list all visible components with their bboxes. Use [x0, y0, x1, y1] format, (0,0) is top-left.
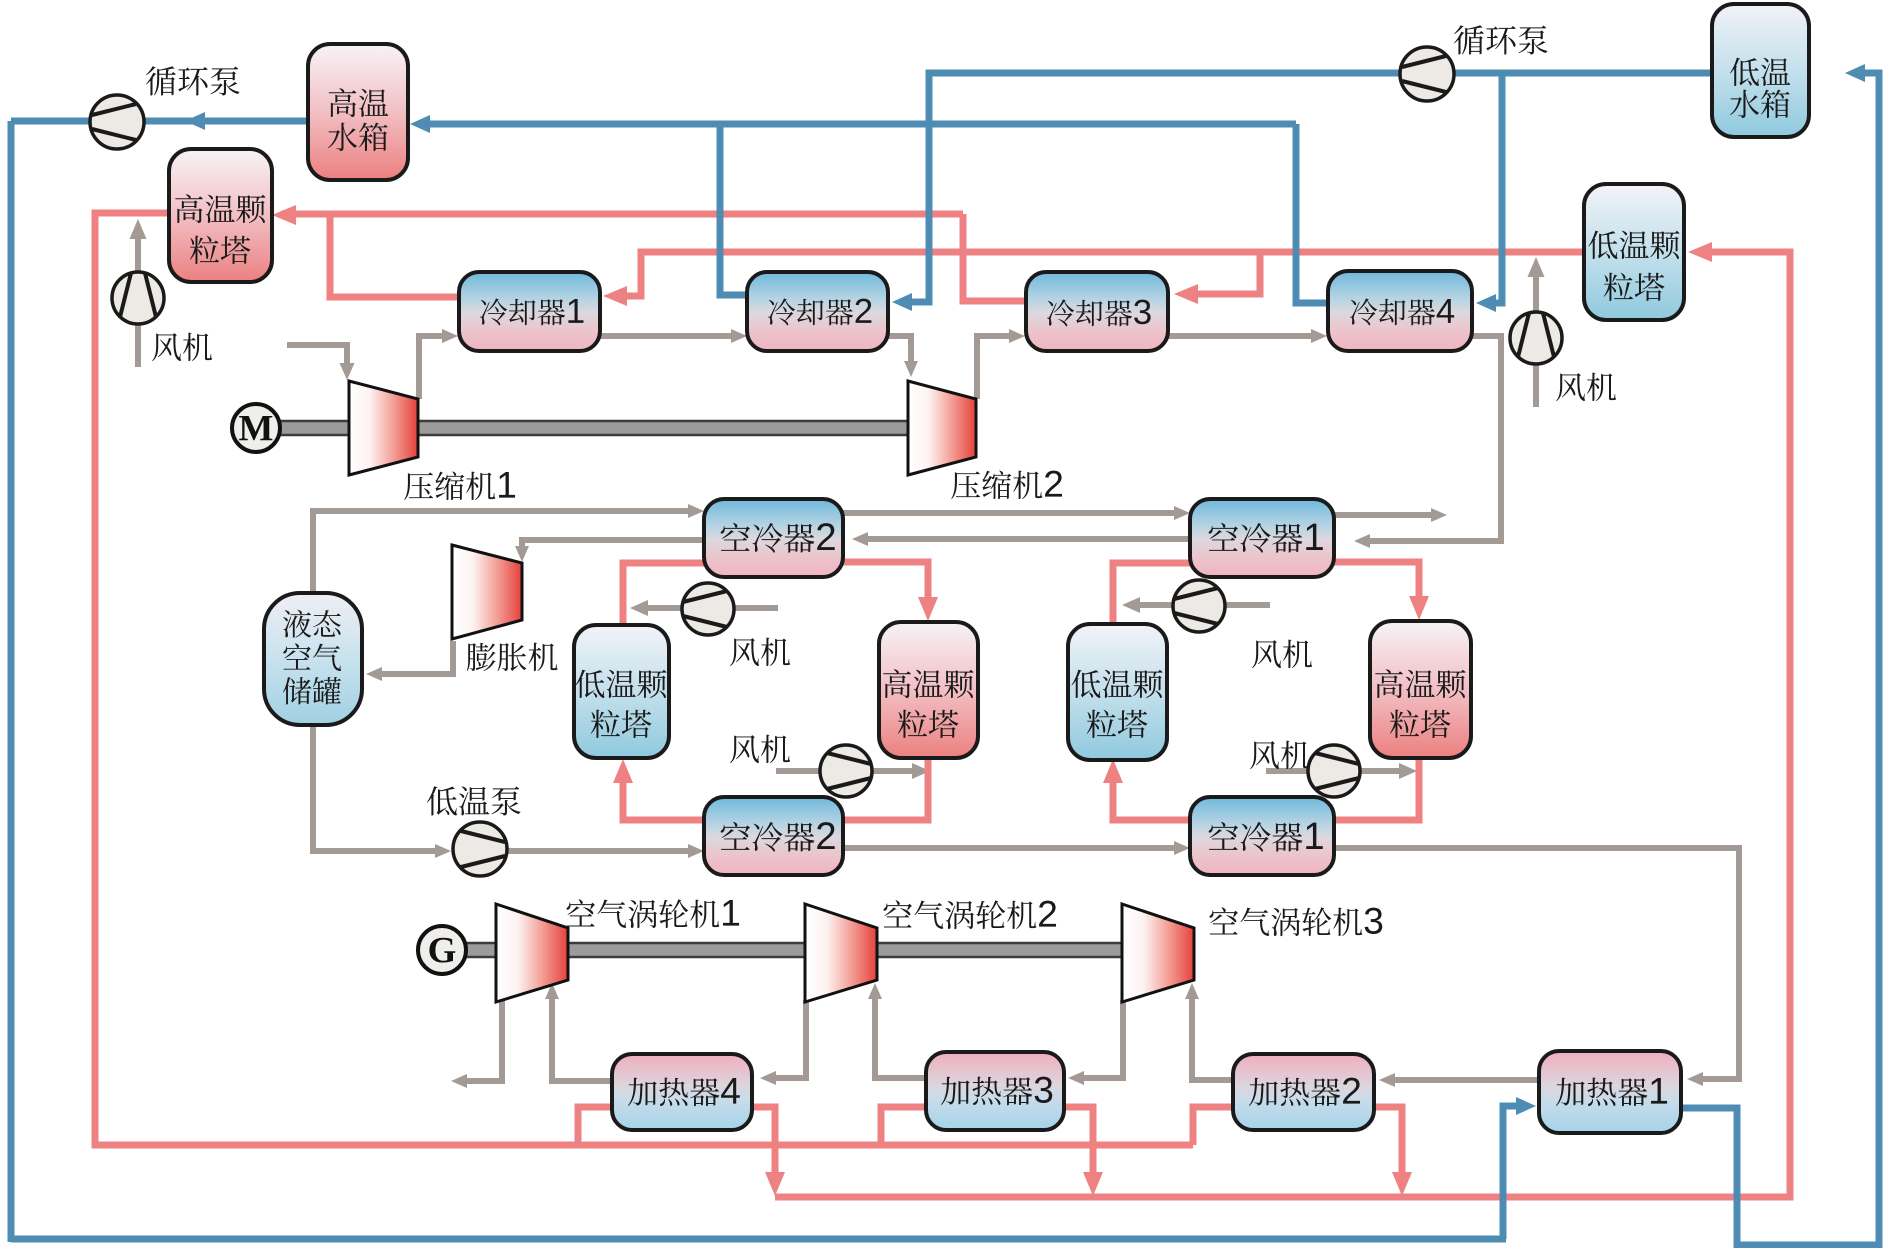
label fan loop B top	[1252, 640, 1281, 668]
liquid air storage tank 液态空气储罐	[264, 593, 362, 725]
label low-temp particle tower loop A	[575, 670, 604, 698]
label heater 2	[1249, 1078, 1278, 1106]
label air cooler 2 top	[721, 523, 750, 551]
label cooler 1	[480, 298, 507, 325]
label low-temp particle tower loop B	[1071, 670, 1100, 698]
wire: cryo pump to air cooler 2 (bottom)	[508, 848, 695, 854]
wire: high-temp particle tower supply to heaters	[95, 213, 1193, 1145]
label high-temp particle tower top-left	[175, 194, 203, 223]
wire: air cooler 1 (top) outlet vent	[1334, 512, 1437, 518]
wire: loop B particle line top-left	[1113, 563, 1190, 625]
motor shaft	[278, 421, 912, 435]
wire: riser to heater 4	[578, 1107, 612, 1145]
wire: air turbine 3 exhaust to heater 3	[1077, 1000, 1123, 1078]
wire: warm water return arrow into low-temp water tank	[1845, 64, 1865, 82]
fan 风机 (loop A bottom)	[820, 745, 872, 797]
wire: loop A particle line bottom-left	[623, 771, 704, 820]
wire: fan line loop A bottom	[776, 768, 921, 774]
high-temp particle tower (loop A)	[879, 622, 978, 758]
wire: heater 4 particle outlet	[752, 1107, 775, 1184]
wire: hot water supply to heater 1	[1503, 1106, 1527, 1239]
label air cooler 2 bottom	[721, 822, 750, 850]
circulation pump 循环泵 (top left)	[90, 95, 144, 149]
label fan loop A top	[730, 638, 759, 666]
wire: hot particle header into high-temp particle tower	[281, 211, 963, 218]
cryogenic pump 低温泵	[453, 822, 507, 876]
wire: air turbine 1 exhaust vent	[460, 1000, 502, 1081]
wire: cooler 2 to compressor 2	[888, 336, 911, 369]
wire: fan line at high-temp particle tower	[135, 231, 141, 367]
compressor 1 压缩机1	[349, 381, 418, 475]
label liquid air storage tank	[283, 610, 311, 638]
label cooler 3	[1047, 299, 1074, 326]
wire: cooler 3 to cooler 4 air line	[1168, 333, 1318, 339]
wire: cooler 1 hot particle outlet riser	[330, 214, 459, 297]
wire: loop A particle line bottom-right	[843, 758, 928, 820]
label cryogenic pump	[427, 786, 457, 815]
label circulation pump top-right	[1454, 25, 1484, 54]
wire: air cooler 2 (top) to air cooler 1 (top) upper line	[843, 510, 1181, 516]
label cooler 2	[768, 298, 795, 325]
label fan loop B bottom	[1250, 741, 1279, 769]
wire: warm water header into high-temp water tank	[419, 121, 1296, 128]
label fan loop A bottom	[730, 735, 759, 763]
heater 4 加热器4	[612, 1054, 752, 1130]
label high-temp particle tower loop A	[883, 669, 911, 698]
fan 风机 (loop B top)	[1173, 580, 1225, 632]
generator G	[418, 926, 466, 974]
wire: loop A particle line top-left	[623, 563, 704, 625]
wire: cold water supply from low-temp water tank	[901, 73, 1712, 302]
air turbine 1 空气涡轮机1	[496, 904, 568, 1002]
wire: air cooler 1 (top) to air cooler 2 (top) lower line	[861, 536, 1190, 542]
wire: heater 4 to air turbine 1 inlet	[552, 992, 612, 1081]
wire: tank bottom to cryo pump	[313, 725, 442, 851]
label fan top-right	[1556, 373, 1585, 401]
wire: high-temp water tank outlet through pump	[11, 118, 308, 125]
label high-temp water tank	[329, 88, 357, 117]
wire: left border water line	[8, 121, 15, 1242]
cooler 4 冷却器4	[1328, 271, 1472, 351]
wire: loop B particle line bottom-left	[1113, 771, 1190, 820]
cooler 3 冷却器3	[1026, 272, 1168, 351]
label heater 3	[941, 1077, 970, 1105]
high-temp particle tower 高温颗粒塔 (top left)	[169, 149, 272, 282]
label air cooler 1 bottom	[1209, 822, 1238, 850]
cooler 2 冷却器2	[747, 272, 888, 351]
wire: fan line loop B bottom	[1266, 768, 1408, 774]
label low-temp particle tower top-right	[1588, 231, 1617, 259]
wire: cooler 4 down to air cooler 1 (top)	[1363, 336, 1501, 541]
wire: air cooler 1 (bottom) to heater 1	[1334, 848, 1739, 1079]
wire: loop B particle line top-right	[1334, 562, 1419, 608]
wire: air intake to compressor 1	[287, 345, 347, 372]
heater 1 加热器1	[1539, 1051, 1681, 1133]
wire: heater 3 particle outlet	[1064, 1107, 1093, 1184]
wire: branch to cooler 3	[1183, 252, 1260, 294]
wire: air cooler 2 (bottom) to air cooler 1 (bottom)	[843, 845, 1181, 851]
expander 膨胀机	[452, 545, 522, 639]
wire: fan line at low-temp particle tower	[1533, 268, 1539, 407]
generator shaft	[464, 943, 1194, 957]
fan 风机 (top right)	[1510, 312, 1562, 364]
label air turbine 2	[883, 900, 912, 927]
air cooler 1 空冷器1 (top)	[1190, 499, 1334, 577]
wire: riser to heater 2	[1193, 1107, 1233, 1145]
wire: bottom border water line (left segment)	[11, 1236, 1506, 1243]
label cooler 4	[1350, 298, 1377, 325]
wire: expander outlet to liquid air tank	[375, 641, 453, 674]
label circulation pump top-left	[146, 66, 176, 95]
label heater 1	[1556, 1078, 1585, 1106]
low-temp particle tower (loop B)	[1068, 624, 1167, 760]
compressor 2 压缩机2	[908, 381, 976, 475]
air turbine 2 空气涡轮机2	[805, 904, 877, 1002]
wire: fan line loop B top	[1131, 602, 1270, 608]
label air turbine 1	[566, 899, 595, 926]
wire: fan line loop A top	[640, 605, 778, 611]
wire: loop B particle line bottom-right	[1334, 758, 1419, 820]
circulation pump 循环泵 (top right)	[1400, 47, 1454, 101]
label high-temp particle tower loop B	[1375, 669, 1403, 698]
air cooler 1 空冷器1 (bottom)	[1190, 797, 1334, 875]
air turbine 3 空气涡轮机3	[1122, 904, 1194, 1002]
label air turbine 3	[1209, 907, 1238, 934]
wire: heater 2 to air turbine 3 inlet	[1192, 992, 1233, 1080]
wire: cold water branch to cooler 4	[1485, 73, 1502, 303]
high-temp water tank 高温水箱	[308, 44, 408, 180]
high-temp particle tower (loop B)	[1370, 621, 1471, 758]
wire: air turbine 2 exhaust to heater 4	[769, 1000, 806, 1078]
low-temp particle tower 低温颗粒塔 (top right)	[1584, 184, 1684, 320]
wire: cooler 4 warm water riser	[1296, 124, 1328, 303]
label air cooler 1 top	[1209, 523, 1238, 551]
fan 风机 (loop A top)	[682, 583, 734, 635]
wire: compressor 1 outlet to cooler 1	[419, 336, 449, 399]
label expander	[467, 643, 496, 671]
low-temp particle tower (loop A)	[574, 625, 669, 758]
heater 2 加热器2	[1233, 1054, 1374, 1130]
wire: air cooler 2 (top) to expander	[522, 540, 704, 554]
low-temp water tank 低温水箱	[1712, 4, 1809, 137]
wire: heater 2 particle outlet	[1374, 1107, 1402, 1184]
fan 风机 (top left)	[112, 272, 164, 324]
wire: compressor 2 outlet to cooler 3	[977, 336, 1016, 399]
label compressor 1	[404, 472, 433, 500]
heater 3 加热器3	[926, 1052, 1064, 1130]
label compressor 2	[951, 471, 980, 499]
wire: cooler 1 to cooler 2 air line	[600, 333, 738, 339]
wire: heater 1 water outlet to low-temp water tank via right border	[1681, 73, 1879, 1245]
wire: cooler 3 hot particle outlet riser	[963, 214, 1027, 301]
wire: storage tank vapor line to air cooler 2 (top)	[313, 511, 695, 593]
fan 风机 (loop B bottom)	[1308, 745, 1360, 797]
wire: riser to heater 3	[881, 1107, 926, 1145]
wire: cooler 2 warm water riser	[720, 124, 748, 295]
motor M	[232, 404, 280, 452]
wire: heater 3 to air turbine 2 inlet	[875, 992, 926, 1078]
wire: loop A particle line top-right	[843, 562, 928, 609]
label fan top-left	[152, 333, 181, 361]
air cooler 2 空冷器2 (top)	[704, 499, 843, 577]
wire: heater 1 to heater 2 air line	[1388, 1077, 1539, 1083]
cooler 1 冷却器1	[459, 272, 600, 351]
wire: low-temp particle tower cold supply header	[612, 252, 1584, 296]
label heater 4	[628, 1078, 657, 1106]
label low-temp water tank	[1730, 58, 1759, 86]
wire: cooled particle return header to low-temp particle tower	[775, 252, 1790, 1197]
air cooler 2 空冷器2 (bottom)	[704, 797, 843, 875]
